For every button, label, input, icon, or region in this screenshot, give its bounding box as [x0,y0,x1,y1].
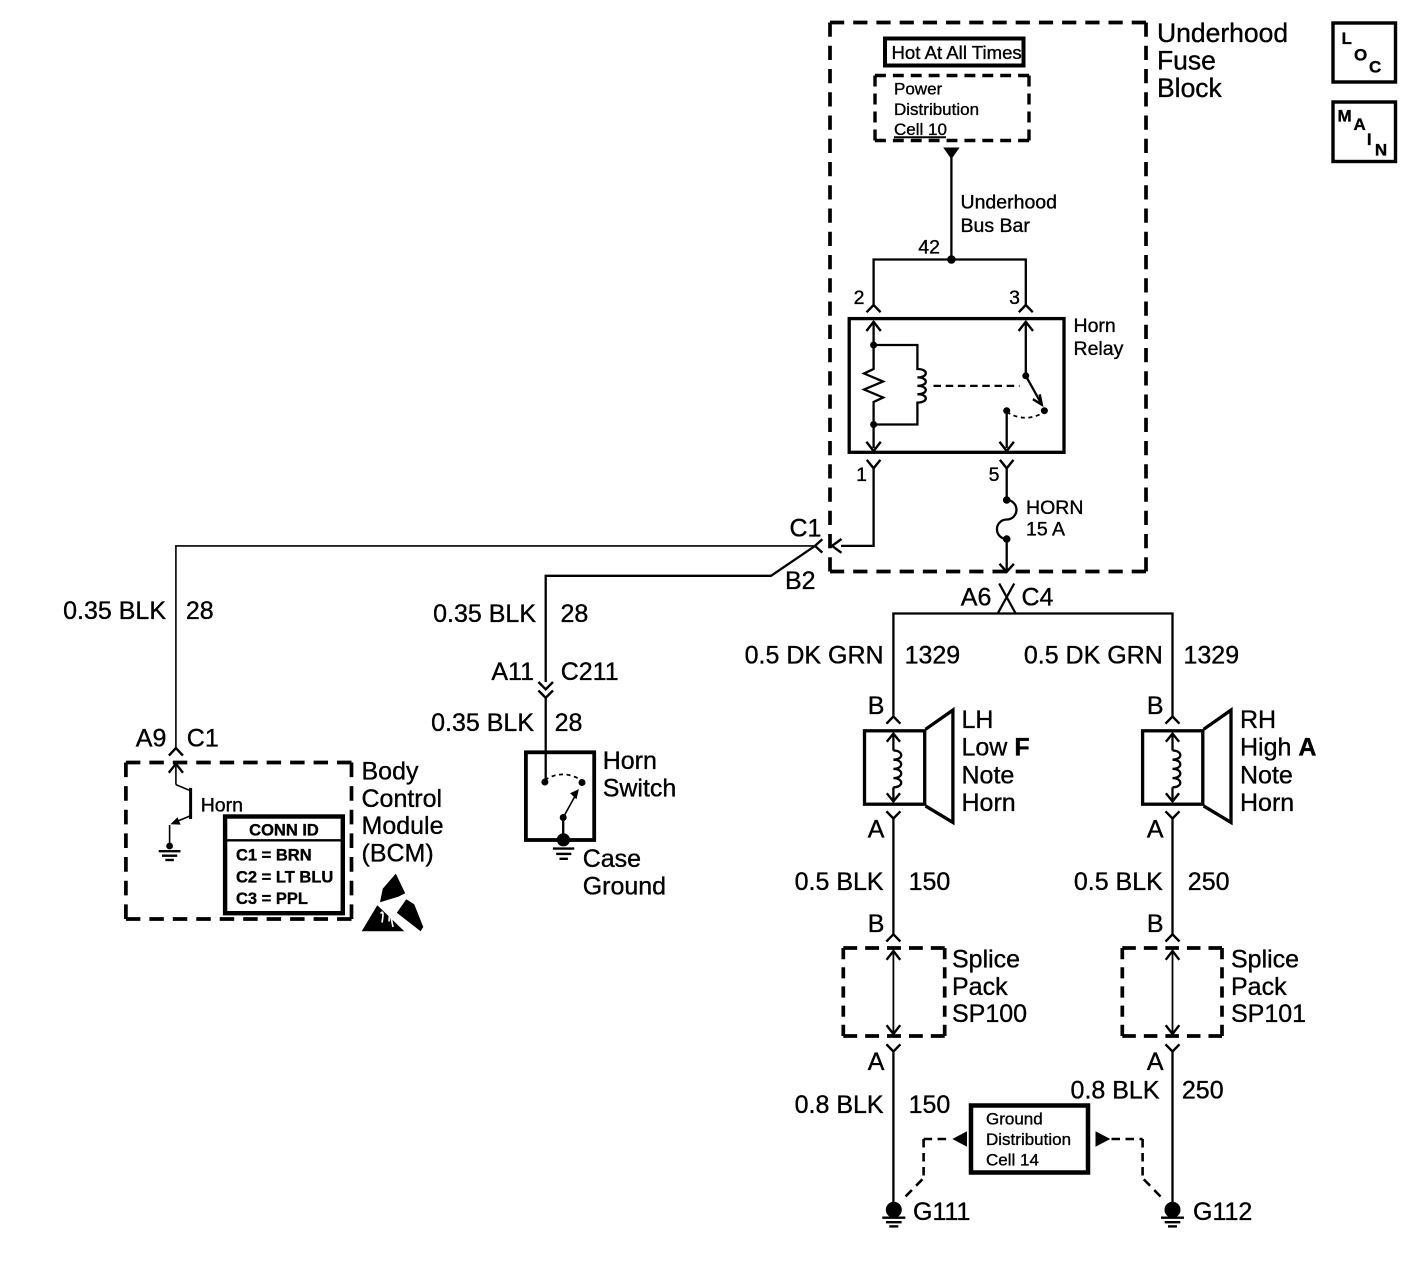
wire: C1 net to BCM [176,546,815,748]
svg-text:Underhood: Underhood [1157,18,1288,48]
dashed link to G112 [1112,1138,1143,1141]
svg-text:Splice: Splice [1231,946,1299,974]
svg-text:Ground: Ground [583,872,666,900]
svg-text:Horn: Horn [1240,789,1294,817]
svg-text:C: C [1369,58,1381,77]
LH horn speaker flare [926,710,953,822]
relay switch common arrow (pin3 side) [1019,322,1033,331]
svg-text:G112: G112 [1193,1198,1252,1226]
dashed actuation link [934,385,1020,387]
svg-text:I: I [1367,130,1372,149]
svg-text:A: A [1147,1048,1164,1076]
svg-text:G111: G111 [913,1198,970,1226]
svg-text:C3 = PPL: C3 = PPL [236,890,308,908]
relay coil feed arrow (pin2 side) [866,322,880,331]
dashed link to G111 [924,1138,951,1141]
svg-text:2: 2 [854,287,865,309]
pin 5 connector [1000,460,1014,468]
svg-text:SP101: SP101 [1231,1000,1306,1028]
svg-text:Low F: Low F [962,734,1030,762]
svg-text:High A: High A [1240,734,1316,762]
svg-text:Horn: Horn [962,789,1016,817]
C1/B2 female chevron [815,539,822,552]
svg-text:(BCM): (BCM) [362,839,434,867]
svg-text:Ground: Ground [986,1110,1043,1129]
wire: splice SP100 to ground [892,1052,894,1203]
svg-text:Pack: Pack [1231,973,1287,1001]
svg-text:B: B [1147,910,1164,938]
svg-text:O: O [1354,46,1367,65]
svg-text:A: A [868,816,885,844]
svg-text:42: 42 [918,236,940,258]
svg-text:A11: A11 [491,658,534,686]
svg-text:Cell 14: Cell 14 [986,1151,1039,1170]
svg-text:150: 150 [909,1091,951,1119]
feed triangle [943,148,959,160]
svg-text:0.35 BLK: 0.35 BLK [433,600,536,628]
svg-text:A: A [868,1048,885,1076]
pin A LH horn [886,811,900,818]
svg-text:C4: C4 [1022,584,1054,612]
svg-text:B2: B2 [785,567,816,595]
RH horn speaker flare [1204,710,1231,822]
pin 1 connector [867,460,881,468]
svg-text:Splice: Splice [952,946,1020,974]
svg-text:M: M [1338,106,1352,125]
svg-text:250: 250 [1182,1077,1224,1105]
RH horn coil element [1166,734,1179,742]
ground G112 [1165,1202,1181,1218]
horn switch box [526,752,594,840]
svg-text:0.5 BLK: 0.5 BLK [1074,868,1163,896]
svg-text:Block: Block [1157,73,1223,103]
relay switch blade [1026,376,1042,404]
svg-text:RH: RH [1240,706,1276,734]
wire: splitter [893,614,1172,717]
svg-text:B: B [868,692,885,720]
svg-text:Switch: Switch [603,774,677,802]
power distribution cell 10 box [875,74,1029,77]
svg-text:Horn: Horn [603,747,657,775]
switch blade with arrow [563,793,577,818]
svg-text:250: 250 [1188,868,1230,896]
connector A6/C4 [998,584,1016,614]
wire: RH horn to splice [1171,819,1173,935]
pin A splice SP101 [1166,1044,1180,1051]
svg-text:HORN: HORN [1026,497,1083,519]
wire: to horn switch [545,698,547,780]
left link triangle [952,1131,967,1146]
pin A RH horn [1166,811,1180,818]
svg-text:C2 = LT BLU: C2 = LT BLU [236,869,333,887]
svg-text:0.35 BLK: 0.35 BLK [431,709,534,737]
C1 male arrow [832,539,842,553]
LH horn coil element [887,734,900,742]
fuse HORN 15A [1006,468,1008,500]
svg-text:28: 28 [561,600,589,628]
svg-text:0.8 BLK: 0.8 BLK [1071,1077,1160,1105]
wire: splice SP101 to ground [1171,1052,1173,1203]
svg-text:A6: A6 [961,584,992,612]
pin A splice SP100 [886,1044,900,1051]
svg-text:28: 28 [186,597,214,625]
case ground [557,833,570,846]
svg-text:0.5 DK GRN: 0.5 DK GRN [745,642,884,670]
svg-text:C1: C1 [790,515,822,543]
svg-text:Distribution: Distribution [894,100,979,119]
ESD sensitive symbol [380,874,405,903]
svg-text:Bus Bar: Bus Bar [961,215,1031,237]
horn switch contacts [541,779,548,786]
svg-text:A: A [1147,816,1164,844]
splice pack SP100 box [843,946,944,950]
CONN ID table [225,817,343,914]
ground distribution cell 14 box [971,1106,1088,1173]
ground G111 [886,1202,902,1218]
svg-text:Power: Power [894,80,943,99]
svg-text:1: 1 [856,464,867,486]
MAIN page box [1333,102,1396,162]
hot at all times box [885,39,1024,66]
RH horn body [1143,731,1203,804]
body control module dashed box [126,761,352,765]
wire: B2 net to horn switch [546,546,815,682]
svg-text:Module: Module [362,812,444,840]
relay coil [874,345,926,425]
svg-text:C211: C211 [561,658,619,686]
svg-text:LH: LH [962,706,994,734]
svg-text:1329: 1329 [905,642,961,670]
transistor ground [159,850,181,852]
svg-text:150: 150 [909,868,951,896]
dashed throw arc [1007,412,1045,418]
svg-text:0.5 BLK: 0.5 BLK [795,868,884,896]
wire: LH horn to splice [892,819,894,935]
svg-text:CONN ID: CONN ID [249,822,319,840]
svg-text:Distribution: Distribution [986,1130,1071,1149]
svg-text:Hot At All Times: Hot At All Times [892,42,1022,63]
svg-text:B: B [868,910,885,938]
wire: fuse output arrow [1006,539,1008,570]
svg-text:N: N [1375,140,1387,159]
svg-text:3: 3 [1009,287,1020,309]
resistor (relay) [864,345,883,425]
svg-text:Underhood: Underhood [961,192,1058,214]
svg-text:15 A: 15 A [1026,518,1065,540]
LOC page box [1333,23,1396,82]
svg-text:Control: Control [362,785,443,813]
svg-text:Horn: Horn [201,795,243,817]
LH horn body [865,731,925,804]
svg-text:Note: Note [962,761,1015,789]
svg-text:Body: Body [362,758,419,786]
wire: pin5 exit arrow [1006,414,1008,449]
svg-text:Relay: Relay [1074,338,1124,360]
svg-text:C1 = BRN: C1 = BRN [236,847,312,865]
svg-text:C1: C1 [187,725,219,753]
transistor Horn driver [169,764,183,773]
svg-text:0.5 DK GRN: 0.5 DK GRN [1024,642,1163,670]
svg-text:5: 5 [989,464,1000,486]
svg-text:A9: A9 [136,725,167,753]
svg-text:28: 28 [555,709,583,737]
svg-text:L: L [1342,29,1352,48]
svg-text:Horn: Horn [1074,315,1116,337]
pin 3 connector [1019,305,1033,312]
wire: bus bar [874,260,1026,305]
svg-text:Pack: Pack [952,973,1008,1001]
svg-text:Note: Note [1240,761,1293,789]
svg-text:B: B [1147,692,1164,720]
svg-text:0.35 BLK: 0.35 BLK [63,597,166,625]
wire: pin1 exit arrow [872,425,874,449]
horn relay box [849,319,1064,453]
splice pack SP101 box [1122,946,1222,950]
svg-text:SP100: SP100 [952,1000,1027,1028]
wire: bus bar feed [950,157,952,260]
pin 2 connector [867,305,881,312]
svg-text:A: A [1354,115,1366,134]
underhood fuse block dashed border [830,21,1146,25]
right link triangle [1096,1131,1111,1146]
svg-text:1329: 1329 [1184,642,1240,670]
wire: pin1 to C1 connector [841,468,874,546]
svg-text:0.8 BLK: 0.8 BLK [795,1091,884,1119]
svg-text:Case: Case [583,845,641,873]
svg-text:Fuse: Fuse [1157,46,1216,76]
